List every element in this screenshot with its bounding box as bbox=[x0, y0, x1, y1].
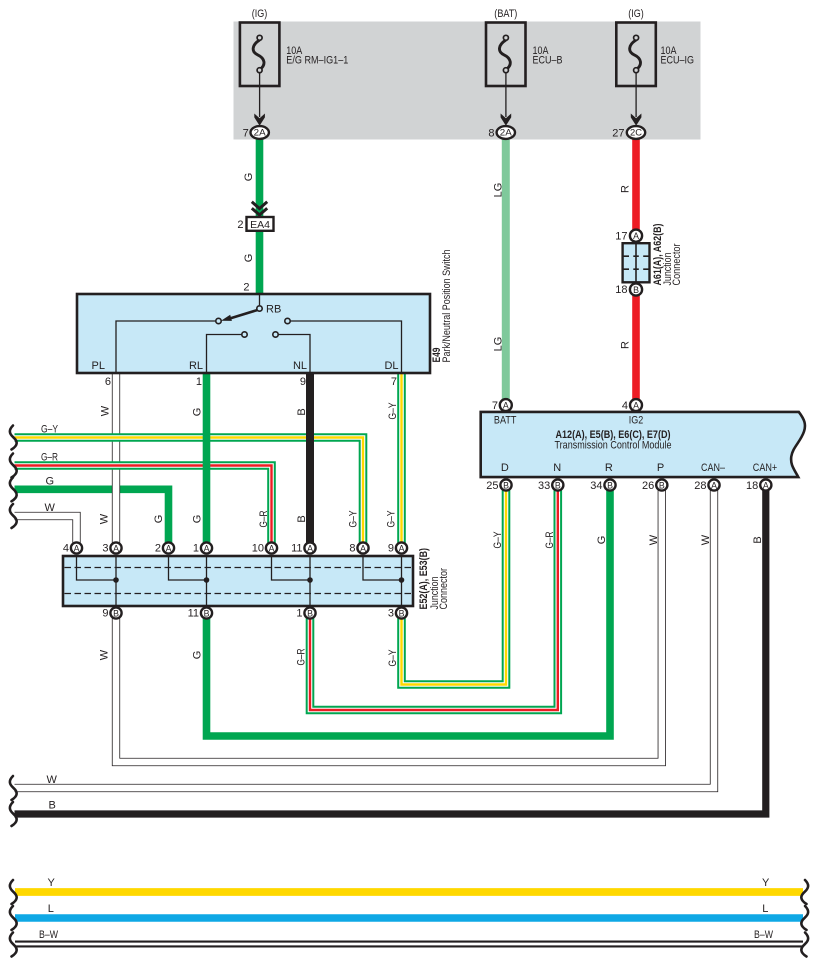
svg-text:B: B bbox=[399, 608, 405, 618]
svg-text:4: 4 bbox=[63, 543, 69, 555]
park/neutral position switch E49 bbox=[77, 250, 453, 389]
svg-text:2A: 2A bbox=[254, 128, 267, 139]
svg-text:7: 7 bbox=[243, 127, 249, 139]
splice EA4 bbox=[237, 202, 273, 231]
svg-text:8: 8 bbox=[488, 127, 494, 139]
svg-text:LG: LG bbox=[493, 337, 505, 352]
svg-text:18: 18 bbox=[746, 480, 758, 492]
svg-text:A: A bbox=[503, 401, 509, 411]
wire G-R E52 pin 1B to TCM N bbox=[310, 487, 558, 710]
wire G-Y from off-page left to E52 pin 8A bbox=[15, 438, 364, 547]
off-page mark G-Y bbox=[10, 426, 17, 450]
svg-text:B: B bbox=[204, 608, 210, 618]
svg-text:A: A bbox=[711, 480, 717, 490]
svg-text:B: B bbox=[555, 480, 561, 490]
svg-text:G–Y: G–Y bbox=[387, 649, 399, 667]
svg-text:N: N bbox=[553, 462, 561, 474]
svg-text:G: G bbox=[243, 173, 255, 182]
svg-text:Connector: Connector bbox=[671, 243, 683, 285]
pin 34B R bbox=[590, 479, 615, 491]
svg-text:11: 11 bbox=[188, 608, 199, 620]
svg-text:G: G bbox=[153, 515, 165, 524]
fuse F3 ECU-IG bbox=[612, 8, 694, 139]
svg-text:D: D bbox=[501, 462, 509, 474]
svg-text:RL: RL bbox=[189, 360, 203, 372]
pin 3A bbox=[102, 542, 121, 554]
svg-text:Transmission Control Module: Transmission Control Module bbox=[555, 440, 672, 452]
svg-text:ECU–IG: ECU–IG bbox=[661, 55, 695, 67]
svg-text:(IG): (IG) bbox=[252, 8, 268, 20]
wire G-Y E52 pin 3B to TCM D bbox=[402, 487, 507, 685]
svg-text:Y: Y bbox=[48, 877, 56, 889]
svg-text:A: A bbox=[633, 401, 639, 411]
svg-text:7: 7 bbox=[391, 376, 397, 388]
svg-text:W: W bbox=[47, 774, 58, 786]
svg-text:2A: 2A bbox=[500, 128, 513, 139]
pin 8A bbox=[349, 542, 368, 554]
svg-text:B–W: B–W bbox=[39, 929, 58, 941]
off-page mark L left bbox=[10, 906, 17, 930]
svg-text:28: 28 bbox=[694, 480, 706, 492]
off-page mark B lower bbox=[10, 802, 17, 826]
junction dot bbox=[204, 577, 210, 583]
svg-text:Park/Neutral Position Switch: Park/Neutral Position Switch bbox=[441, 250, 453, 363]
svg-text:G–Y: G–Y bbox=[492, 531, 504, 549]
svg-text:B: B bbox=[296, 515, 308, 522]
wire W E52 pin 9B to TCM P bbox=[116, 487, 662, 762]
svg-text:A: A bbox=[633, 231, 639, 241]
svg-text:B: B bbox=[659, 480, 665, 490]
svg-text:W: W bbox=[700, 534, 712, 545]
contact RB bbox=[257, 306, 262, 311]
svg-text:B: B bbox=[113, 608, 119, 618]
svg-text:2: 2 bbox=[243, 282, 249, 294]
svg-text:BATT: BATT bbox=[494, 414, 517, 426]
wire L CAN bus bbox=[15, 914, 803, 922]
off-page mark B-W right bbox=[801, 933, 808, 957]
off-page mark Y right bbox=[801, 880, 808, 904]
wire G from off-page left to E52 pin 2A bbox=[15, 489, 169, 546]
wire Y CAN bus bbox=[15, 888, 803, 896]
wire W TCM CAN- to off-page left bbox=[15, 487, 715, 788]
svg-text:W: W bbox=[99, 513, 111, 524]
svg-text:3: 3 bbox=[388, 608, 394, 620]
svg-text:LG: LG bbox=[493, 183, 505, 198]
svg-text:18: 18 bbox=[615, 284, 627, 296]
off-page mark G bbox=[10, 477, 17, 501]
off-page mark W lower bbox=[10, 776, 17, 800]
junction dot bbox=[307, 577, 313, 583]
svg-text:1: 1 bbox=[196, 376, 202, 388]
wire W from off-page left to E52 pin 4A bbox=[15, 516, 77, 546]
svg-text:G–Y: G–Y bbox=[348, 510, 360, 528]
svg-text:CAN–: CAN– bbox=[701, 462, 726, 474]
svg-text:1: 1 bbox=[296, 608, 302, 620]
svg-text:B: B bbox=[607, 480, 613, 490]
svg-text:A: A bbox=[113, 543, 119, 553]
svg-text:10: 10 bbox=[252, 543, 264, 555]
wire G-R from off-page left to E52 pin 10A bbox=[15, 466, 272, 547]
pin 26B P bbox=[642, 479, 667, 491]
pin 28A CAN- bbox=[694, 479, 719, 491]
contact and wire to NL bbox=[273, 332, 278, 337]
svg-text:G–R: G–R bbox=[296, 648, 308, 665]
wire G fuse1 to E49 bbox=[256, 139, 264, 296]
wire B-W CAN bus bbox=[15, 941, 803, 948]
svg-text:ECU–B: ECU–B bbox=[533, 55, 563, 67]
svg-text:9: 9 bbox=[388, 543, 394, 555]
svg-text:B: B bbox=[503, 480, 509, 490]
junction dot bbox=[113, 577, 119, 583]
svg-text:4: 4 bbox=[622, 400, 628, 412]
svg-text:G–Y: G–Y bbox=[386, 510, 398, 528]
svg-text:G: G bbox=[192, 408, 204, 417]
wire G E52 pin 11B to TCM R bbox=[207, 487, 611, 736]
svg-text:34: 34 bbox=[590, 480, 602, 492]
svg-text:G: G bbox=[192, 651, 204, 660]
pin 1B bbox=[296, 607, 315, 619]
pin 11B bbox=[188, 607, 213, 619]
internal wire 9A-3B bbox=[401, 557, 403, 605]
pin 18A CAN+ bbox=[746, 479, 771, 491]
pin 25B D bbox=[486, 479, 511, 491]
svg-text:6: 6 bbox=[105, 376, 111, 388]
svg-text:G: G bbox=[46, 476, 55, 488]
svg-text:EA4: EA4 bbox=[250, 219, 270, 231]
svg-text:G: G bbox=[192, 515, 204, 524]
svg-text:27: 27 bbox=[612, 127, 624, 139]
svg-text:33: 33 bbox=[538, 480, 550, 492]
svg-text:RB: RB bbox=[266, 304, 281, 316]
pin 9B bbox=[102, 607, 121, 619]
svg-text:IG2: IG2 bbox=[629, 414, 644, 426]
svg-text:3: 3 bbox=[102, 543, 108, 555]
internal wire 11A-1B bbox=[309, 557, 311, 605]
pin 3B bbox=[388, 607, 407, 619]
contact and wire to RL bbox=[242, 332, 247, 337]
svg-text:CAN+: CAN+ bbox=[753, 462, 778, 474]
svg-text:B: B bbox=[49, 800, 56, 812]
svg-text:R: R bbox=[620, 341, 632, 349]
wire G-Y E49 DL to E52 pin 9A bbox=[397, 373, 406, 546]
svg-text:9: 9 bbox=[300, 376, 306, 388]
svg-text:26: 26 bbox=[642, 480, 654, 492]
off-page mark Y left bbox=[10, 880, 17, 904]
svg-text:R: R bbox=[620, 185, 632, 193]
svg-text:W: W bbox=[100, 405, 112, 416]
pin 9A bbox=[388, 542, 407, 554]
svg-text:A: A bbox=[269, 543, 275, 553]
junction connector E52(A) E53(B) bbox=[63, 548, 450, 610]
internal jog 2A bbox=[169, 557, 207, 580]
svg-text:PL: PL bbox=[92, 360, 105, 372]
internal jog 10A bbox=[272, 557, 311, 580]
junction dot bbox=[399, 577, 405, 583]
svg-text:17: 17 bbox=[615, 231, 627, 243]
svg-text:7: 7 bbox=[492, 400, 498, 412]
svg-text:2: 2 bbox=[155, 543, 161, 555]
svg-text:B: B bbox=[296, 408, 308, 415]
junction connector A61(A) A62(B) bbox=[615, 223, 683, 296]
svg-text:9: 9 bbox=[102, 608, 108, 620]
pin 4A bbox=[63, 542, 82, 554]
transmission control module TCM bbox=[481, 412, 805, 477]
svg-text:A: A bbox=[399, 543, 405, 553]
svg-text:E/G RM–IG1–1: E/G RM–IG1–1 bbox=[286, 55, 348, 67]
svg-text:G–R: G–R bbox=[41, 452, 58, 464]
pin 7A BATT bbox=[492, 399, 512, 412]
svg-text:B: B bbox=[633, 285, 639, 295]
svg-text:B: B bbox=[752, 536, 764, 543]
pin 33B N bbox=[538, 479, 563, 491]
svg-text:DL: DL bbox=[384, 360, 398, 372]
wire G E49 RL to E52 pin 1A bbox=[203, 373, 211, 546]
svg-text:L: L bbox=[48, 903, 54, 915]
svg-text:G: G bbox=[243, 254, 255, 263]
off-page mark W bbox=[10, 504, 17, 528]
svg-text:R: R bbox=[605, 462, 613, 474]
pin 2A bbox=[155, 542, 174, 554]
svg-text:P: P bbox=[657, 462, 664, 474]
wire LG fuse2 to TCM BATT bbox=[502, 139, 510, 402]
wire R fuse3 to A61 bbox=[632, 139, 640, 232]
svg-text:A: A bbox=[166, 543, 172, 553]
svg-text:G–R: G–R bbox=[258, 510, 270, 527]
pin 10A bbox=[252, 542, 277, 554]
svg-text:2: 2 bbox=[237, 219, 243, 231]
svg-text:(IG): (IG) bbox=[628, 8, 644, 20]
svg-text:11: 11 bbox=[291, 543, 302, 555]
svg-text:G: G bbox=[596, 536, 608, 545]
internal wire 1A-11B bbox=[206, 557, 208, 605]
svg-text:B: B bbox=[307, 608, 313, 618]
svg-text:Y: Y bbox=[762, 877, 770, 889]
svg-text:(BAT): (BAT) bbox=[494, 8, 517, 20]
svg-text:1: 1 bbox=[193, 543, 199, 555]
svg-text:W: W bbox=[648, 534, 660, 545]
contact and wire to PL bbox=[216, 318, 221, 323]
svg-text:B–W: B–W bbox=[754, 929, 773, 941]
svg-text:W: W bbox=[45, 502, 56, 514]
off-page mark G-R bbox=[10, 454, 17, 478]
wire W E49 PL to E52 pin 3A bbox=[112, 373, 120, 546]
svg-text:G–Y: G–Y bbox=[387, 402, 399, 420]
svg-text:2C: 2C bbox=[630, 128, 642, 139]
wire B TCM CAN+ to off-page left bbox=[15, 487, 766, 814]
switch lever bbox=[229, 310, 258, 319]
fuse F1 E/G RM-IG1-1 bbox=[240, 8, 348, 139]
wire R A61 to TCM IG2 bbox=[632, 293, 640, 402]
contact and wire to DL bbox=[285, 318, 290, 323]
off-page mark L right bbox=[801, 906, 808, 930]
wire stub to RB contact bbox=[259, 295, 261, 305]
internal jog 8A bbox=[363, 557, 402, 580]
pin 11A bbox=[291, 542, 316, 554]
svg-text:G–Y: G–Y bbox=[41, 424, 59, 436]
svg-text:G–R: G–R bbox=[544, 531, 556, 548]
svg-text:A: A bbox=[74, 543, 80, 553]
fuse F2 ECU-B bbox=[486, 8, 563, 139]
svg-text:A: A bbox=[307, 543, 313, 553]
internal wire 3A-9B bbox=[115, 557, 117, 605]
svg-text:25: 25 bbox=[486, 480, 498, 492]
pin 4A IG2 bbox=[622, 399, 642, 412]
svg-text:NL: NL bbox=[293, 360, 307, 372]
pin 1A bbox=[193, 542, 212, 554]
off-page mark B-W left bbox=[10, 933, 17, 957]
svg-text:A: A bbox=[360, 543, 366, 553]
power strip gray band bbox=[234, 22, 701, 140]
svg-text:8: 8 bbox=[349, 543, 355, 555]
svg-text:W: W bbox=[99, 649, 111, 660]
svg-text:Connector: Connector bbox=[438, 568, 450, 610]
wire B E49 NL to E52 pin 11A bbox=[306, 373, 314, 546]
svg-text:A: A bbox=[763, 480, 769, 490]
internal jog 4A bbox=[77, 557, 117, 580]
svg-text:L: L bbox=[762, 903, 768, 915]
svg-text:A: A bbox=[204, 543, 210, 553]
